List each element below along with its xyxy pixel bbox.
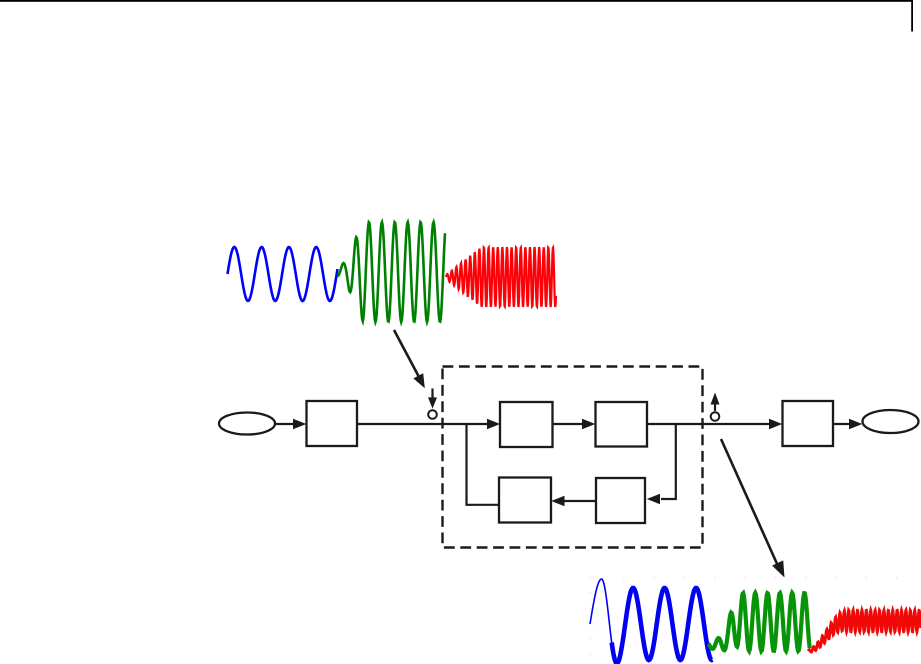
arrow A -> B [553, 419, 596, 429]
block A (top-left in channel) [500, 402, 553, 447]
output ellipse [863, 410, 919, 433]
block E (bottom-right in channel) [596, 478, 645, 523]
page top border line [0, 0, 913, 2]
arrow from node N2 region down to bottom waveform [721, 439, 785, 578]
bottom waveform: blue demodulated sine [612, 588, 713, 663]
wire block1 -> block A [357, 423, 497, 425]
small down-arrow into node N1 [428, 389, 437, 409]
wire B -> output block with node N2 [647, 423, 772, 425]
feedback riser (left) [467, 424, 500, 505]
arrow E -> D [551, 496, 596, 506]
arrow output block -> output ellipse [833, 419, 862, 429]
block B (top-right in channel) [596, 402, 648, 447]
bottom waveform: green section [708, 593, 810, 651]
faint plot gridline dots (bottom waveform) [590, 577, 921, 658]
bottom waveform: red section [808, 610, 921, 652]
top waveform: blue message sine [228, 247, 338, 301]
block 1 (transmitter) [307, 401, 358, 446]
arrow from top waveform to channel input node [394, 330, 425, 388]
arrow input ellipse -> block 1 [275, 419, 306, 429]
arrowhead into output block [769, 419, 782, 429]
arrowhead into block A [487, 419, 500, 429]
top waveform: red high-frequency signal [446, 247, 556, 307]
page right border tick [911, 0, 913, 32]
small up-arrow from node N2 [711, 393, 720, 412]
bottom waveform: blue demodulated sine (thin lead-in) [590, 579, 612, 647]
node N1 circle [428, 410, 437, 419]
arrowhead into block E [647, 494, 660, 504]
top waveform: green modulated sine [337, 222, 445, 322]
block D (bottom-left in channel) [499, 478, 551, 523]
node N2 circle [711, 412, 720, 421]
dashed channel box [443, 367, 703, 548]
riser to bottom-right block [661, 424, 676, 499]
input ellipse [219, 413, 275, 435]
output block (receiver) [783, 401, 834, 446]
